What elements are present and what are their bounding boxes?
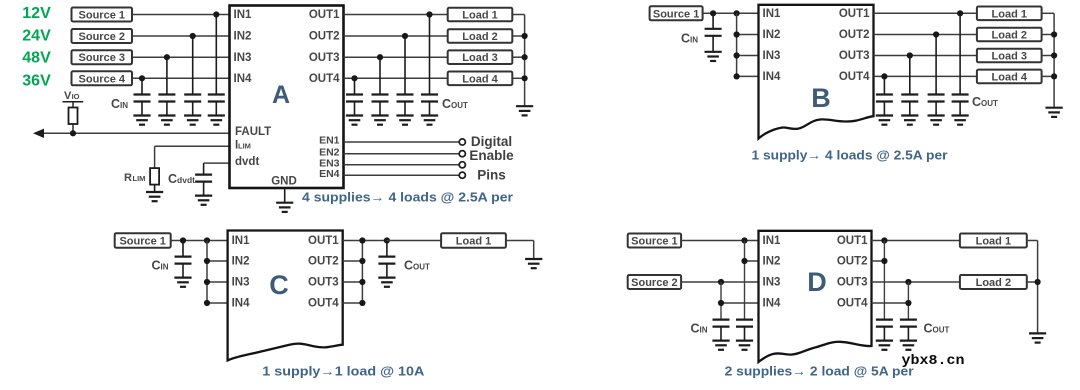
svg-text:OUT4: OUT4 <box>309 73 340 85</box>
svg-text:C: C <box>269 270 289 300</box>
svg-text:Load 4: Load 4 <box>462 73 498 85</box>
svg-text:Cdvdt: Cdvdt <box>168 172 195 186</box>
svg-text:IN3: IN3 <box>232 277 250 289</box>
svg-text:OUT4: OUT4 <box>837 298 868 310</box>
svg-text:OUT1: OUT1 <box>837 235 868 247</box>
svg-text:OUT4: OUT4 <box>839 71 870 83</box>
svg-text:OUT1: OUT1 <box>309 9 340 21</box>
svg-text:Load 1: Load 1 <box>976 236 1011 248</box>
svg-text:EN4: EN4 <box>319 168 340 180</box>
svg-text:1 supply→1 load @ 10A: 1 supply→1 load @ 10A <box>262 364 425 379</box>
svg-text:COUT: COUT <box>972 95 998 109</box>
svg-text:Pins: Pins <box>477 168 506 183</box>
svg-text:IO: IO <box>72 92 80 101</box>
svg-text:OUT3: OUT3 <box>837 277 868 289</box>
svg-text:Source 2: Source 2 <box>79 31 125 43</box>
svg-text:CIN: CIN <box>681 32 698 46</box>
svg-text:IN1: IN1 <box>234 9 253 21</box>
svg-text:COUT: COUT <box>924 322 950 336</box>
svg-text:IN1: IN1 <box>763 235 782 247</box>
svg-text:Load 3: Load 3 <box>462 52 497 64</box>
svg-text:FAULT: FAULT <box>235 126 271 138</box>
svg-text:LIM: LIM <box>133 174 146 183</box>
svg-text:4 supplies→ 4 loads @ 2.5A per: 4 supplies→ 4 loads @ 2.5A per <box>302 190 513 205</box>
svg-text:36V: 36V <box>22 73 51 90</box>
svg-text:IN3: IN3 <box>234 52 252 64</box>
svg-text:12V: 12V <box>22 5 51 22</box>
svg-text:IN3: IN3 <box>763 50 781 62</box>
svg-text:Source 2: Source 2 <box>631 277 677 289</box>
svg-text:COUT: COUT <box>404 259 430 273</box>
svg-text:OUT2: OUT2 <box>839 29 870 41</box>
svg-text:R: R <box>124 172 132 184</box>
svg-text:Load 3: Load 3 <box>992 51 1027 63</box>
svg-text:IN4: IN4 <box>232 298 251 310</box>
svg-text:Enable: Enable <box>469 148 514 163</box>
svg-text:B: B <box>811 83 831 113</box>
svg-text:CIN: CIN <box>691 322 708 336</box>
svg-text:D: D <box>807 267 827 297</box>
svg-text:EN1: EN1 <box>319 135 340 147</box>
svg-text:Load 1: Load 1 <box>462 10 497 22</box>
svg-text:IN2: IN2 <box>234 31 252 43</box>
svg-text:CIN: CIN <box>111 97 128 111</box>
svg-text:IN4: IN4 <box>763 298 782 310</box>
svg-text:A: A <box>272 81 290 109</box>
svg-text:OUT1: OUT1 <box>308 235 339 247</box>
svg-text:Source 1: Source 1 <box>631 236 677 248</box>
svg-text:1 supply→ 4 loads @ 2.5A per: 1 supply→ 4 loads @ 2.5A per <box>752 148 948 163</box>
svg-text:Source 1: Source 1 <box>79 10 125 22</box>
svg-text:Source 1: Source 1 <box>653 8 699 20</box>
svg-text:IN3: IN3 <box>763 277 781 289</box>
svg-text:OUT3: OUT3 <box>308 277 339 289</box>
svg-text:Source 1: Source 1 <box>119 235 165 247</box>
svg-text:IN2: IN2 <box>763 256 781 268</box>
svg-text:IN1: IN1 <box>763 8 782 20</box>
svg-text:GND: GND <box>271 176 297 188</box>
svg-text:IN4: IN4 <box>763 71 782 83</box>
svg-text:2 supplies→ 2 load @ 5A per: 2 supplies→ 2 load @ 5A per <box>725 364 914 379</box>
svg-text:Load 2: Load 2 <box>462 31 497 43</box>
svg-text:OUT2: OUT2 <box>308 256 339 268</box>
svg-text:24V: 24V <box>22 28 51 45</box>
svg-text:OUT1: OUT1 <box>839 8 870 20</box>
svg-text:Source 3: Source 3 <box>79 52 125 64</box>
svg-text:Source 4: Source 4 <box>79 73 126 85</box>
svg-text:Load 1: Load 1 <box>992 8 1027 20</box>
svg-text:IN2: IN2 <box>763 29 781 41</box>
svg-text:COUT: COUT <box>442 97 468 111</box>
svg-text:OUT2: OUT2 <box>837 256 868 268</box>
svg-text:Load 2: Load 2 <box>992 30 1027 42</box>
svg-text:IN1: IN1 <box>232 235 251 247</box>
svg-text:Load 1: Load 1 <box>456 235 491 247</box>
svg-text:OUT2: OUT2 <box>309 31 340 43</box>
svg-text:Load 4: Load 4 <box>992 71 1028 83</box>
svg-text:OUT3: OUT3 <box>309 52 340 64</box>
svg-text:Load 2: Load 2 <box>976 277 1011 289</box>
svg-text:Digital: Digital <box>471 134 512 149</box>
svg-text:48V: 48V <box>22 50 51 67</box>
svg-text:IN4: IN4 <box>234 73 253 85</box>
svg-text:LIM: LIM <box>238 142 251 151</box>
svg-text:OUT4: OUT4 <box>308 298 339 310</box>
svg-text:IN2: IN2 <box>232 256 250 268</box>
svg-text:CIN: CIN <box>152 259 169 273</box>
svg-text:dvdt: dvdt <box>235 156 259 168</box>
svg-text:ybx8.cn: ybx8.cn <box>902 354 965 369</box>
svg-text:OUT3: OUT3 <box>839 50 870 62</box>
